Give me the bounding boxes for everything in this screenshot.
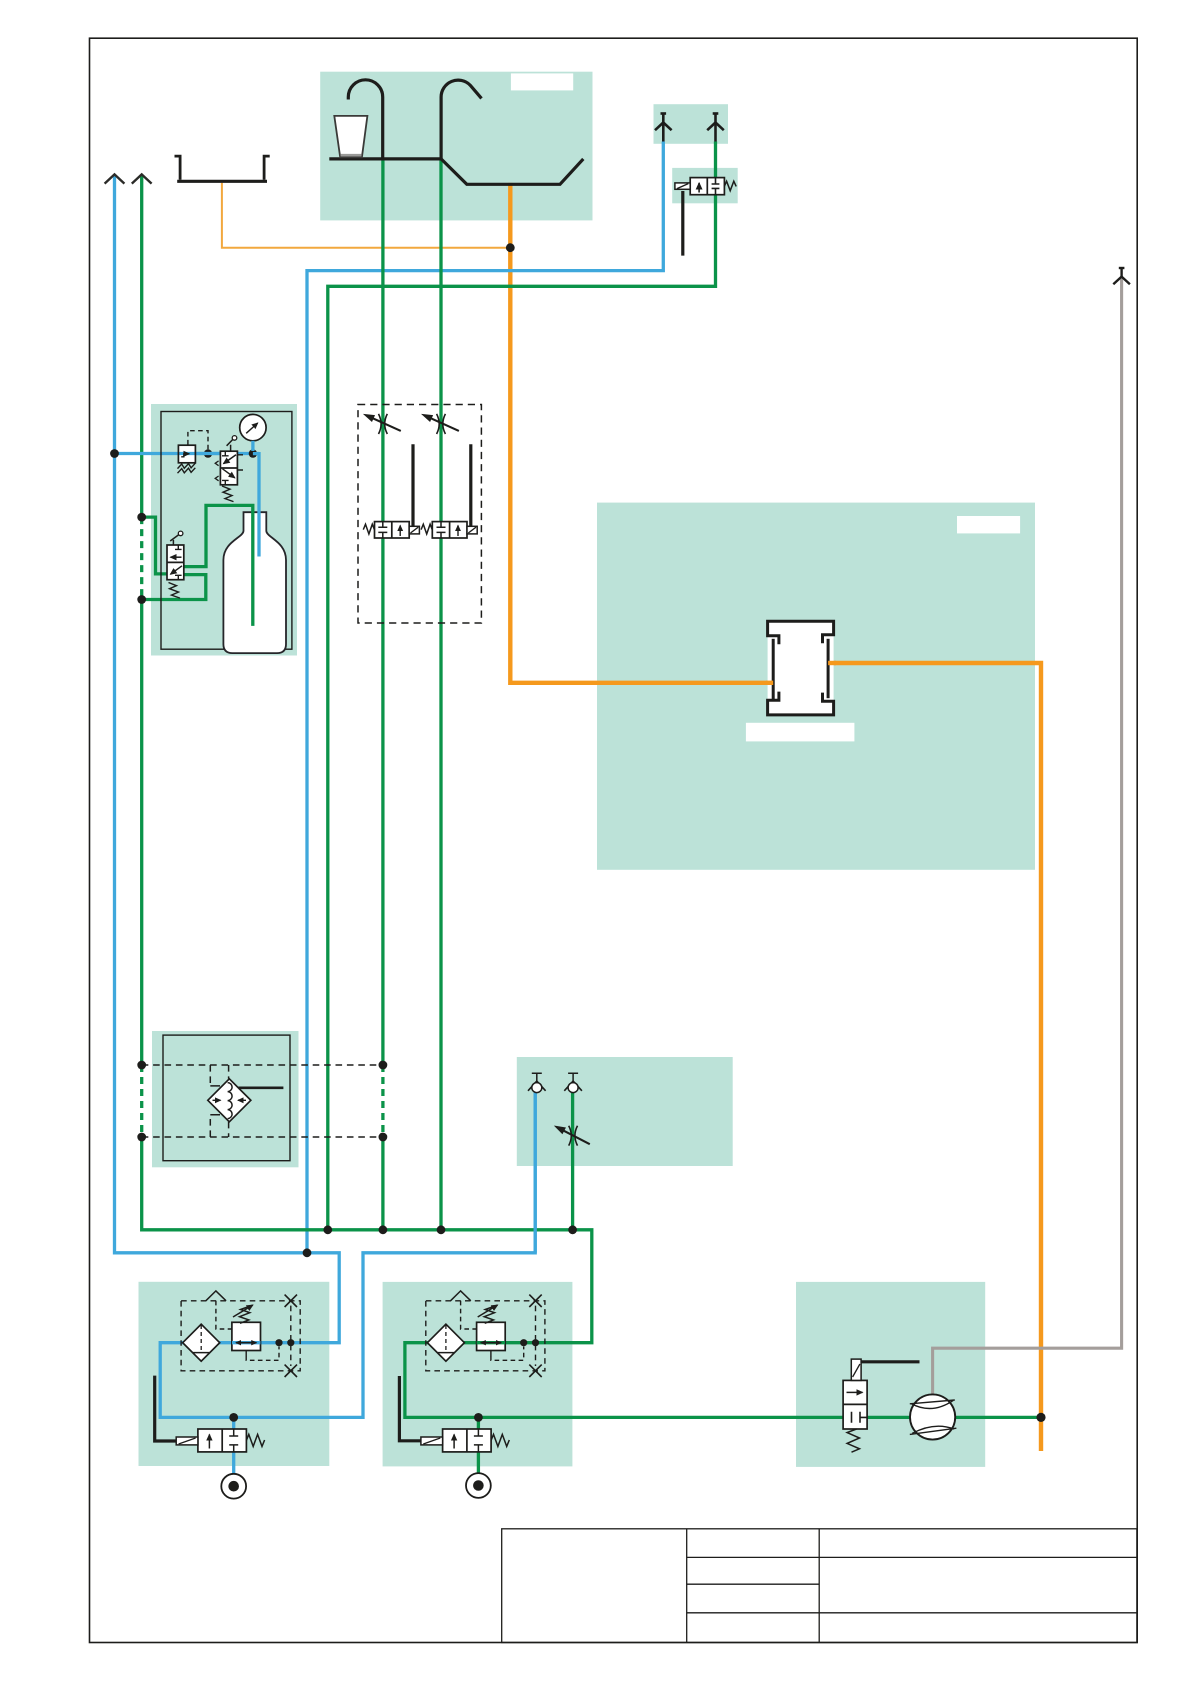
node bus E xyxy=(379,1225,388,1234)
wire blue nozzle 1 drop J xyxy=(534,1092,537,1253)
service unit 1 regulator spring xyxy=(240,1306,252,1324)
node service2 outlet branch xyxy=(474,1413,483,1422)
wire gray from vacuum pump to exhaust E3 xyxy=(933,279,1122,1397)
valve V1 blocked port marks xyxy=(712,178,720,195)
nozzle N2 xyxy=(564,1073,582,1092)
wire green line B middle xyxy=(140,600,143,1066)
node bus D xyxy=(323,1225,332,1234)
service unit 1 filter diamond xyxy=(183,1324,220,1361)
stem valve S1 xyxy=(363,522,419,538)
service unit 1 dashed box xyxy=(181,1301,300,1371)
wire green line E lower xyxy=(381,1137,384,1230)
throttle valve T3 xyxy=(555,1126,590,1146)
pilot line exhaust valve actuator xyxy=(681,191,684,256)
solenoid valve SV1 xyxy=(176,1429,264,1452)
cup base shading xyxy=(341,154,362,157)
air dryer scallops xyxy=(228,1083,233,1119)
gauge stem xyxy=(251,441,254,451)
valve V2 right port stubs xyxy=(237,455,243,470)
pump control valve PV xyxy=(843,1359,867,1452)
label patch cell bottom xyxy=(746,723,855,742)
relief valve R1 spring xyxy=(178,463,196,468)
node bus F xyxy=(437,1225,446,1234)
title block row line 2 (middle column only) xyxy=(687,1583,820,1585)
service unit 2 test X top xyxy=(529,1295,541,1307)
bottle unit inner frame xyxy=(161,412,292,650)
valve PV solenoid xyxy=(851,1359,861,1380)
measuring cell upper flange outline xyxy=(768,621,834,644)
service unit 2 regulator xyxy=(477,1322,506,1350)
valve SV1 spring xyxy=(246,1434,264,1446)
measuring cell body white xyxy=(768,621,834,715)
title block row line 3 xyxy=(687,1612,1137,1614)
throttle valve T1 xyxy=(364,414,400,434)
service unit 1 regulator xyxy=(232,1322,261,1350)
exhaust E2 (green side) xyxy=(707,114,724,142)
node pump outlet on orange line xyxy=(1036,1413,1045,1422)
valve V3 top box arrow and port T xyxy=(175,545,182,549)
valve V2 exhaust chevrons xyxy=(215,461,218,466)
wire green bus and service unit 2 run to pump xyxy=(142,1137,1041,1417)
service unit 2 pilot dashed loop xyxy=(491,1347,524,1361)
dispenser spout 1 xyxy=(348,80,382,159)
valve V1 return spring xyxy=(724,181,736,191)
pilot lead solenoid service 1 xyxy=(155,1376,177,1441)
wire blue supply line A xyxy=(115,176,536,1418)
port coupling C2 xyxy=(466,1473,491,1498)
block measuring cell xyxy=(597,503,1035,870)
block dispenser unit xyxy=(320,72,592,221)
valve PV spring xyxy=(847,1429,859,1452)
node blue riser C join xyxy=(303,1248,312,1257)
block bottle unit xyxy=(151,404,297,656)
wire orange stub into cell left port xyxy=(766,681,773,685)
label patch dispenser xyxy=(511,73,573,90)
wire green bottle valve return to node B2 xyxy=(142,575,206,600)
valve V2 spring xyxy=(222,486,234,502)
throttle valve T2 xyxy=(423,414,459,434)
node bus K xyxy=(568,1225,577,1234)
stem valve S2 xyxy=(421,522,477,538)
node B2 xyxy=(137,595,146,604)
block air dryer xyxy=(152,1031,299,1167)
wire orange stub out of cell right port xyxy=(828,661,836,665)
valve V2 lever xyxy=(227,439,234,451)
valve V1 flow arrow xyxy=(698,183,700,193)
air dryer dashed taps xyxy=(142,1065,383,1137)
node blue feed tap xyxy=(110,449,119,458)
block service unit 2 xyxy=(383,1282,573,1467)
air dryer connectors xyxy=(210,1086,220,1115)
exhaust E1 (blue side) xyxy=(655,114,672,142)
block exhaust valve xyxy=(672,168,738,203)
valve S1 blocked port marks xyxy=(378,522,387,538)
node service1 pilot tap xyxy=(275,1339,282,1346)
solenoid valve SV2 xyxy=(421,1429,509,1452)
wire green branch to service valve 2 port 1 xyxy=(477,1417,480,1473)
wire green bottle feed from node B1 xyxy=(142,517,168,574)
valve PV flow arrow xyxy=(847,1391,863,1393)
service unit 1 test point dashed line xyxy=(290,1306,292,1366)
node bottle pilot junction xyxy=(204,449,212,457)
supply arrow blue xyxy=(105,174,125,183)
valve PV blocked port marks xyxy=(852,1412,868,1423)
relief valve R1 pilot dashed line xyxy=(188,431,208,454)
wire green line B bypass dashed segment 1 xyxy=(140,517,143,599)
exhaust valve V1 body xyxy=(675,178,736,195)
block service unit 1 xyxy=(139,1282,330,1466)
air dryer outlet arrow xyxy=(238,1099,246,1101)
valve SV2 spring xyxy=(491,1434,509,1446)
measuring cell left wall xyxy=(772,639,775,701)
valve S2 flow arrow xyxy=(457,526,459,537)
measuring cell lower flange outline xyxy=(768,692,834,715)
service unit 1 pilot dashed loop xyxy=(246,1347,279,1361)
block nozzles xyxy=(517,1057,733,1166)
label patch cell top-right xyxy=(957,516,1020,533)
service unit 2 test point dashed line xyxy=(535,1306,537,1366)
wire orange from measuring cell outlet down to node P2 xyxy=(830,663,1042,1451)
vacuum pump M1 xyxy=(910,1394,957,1439)
service unit 2 filter diamond xyxy=(427,1324,464,1361)
valve S1 stem actuator xyxy=(409,526,419,534)
service unit 1 test X top xyxy=(285,1295,297,1307)
valve V2 bottom box arrow and port T xyxy=(223,469,235,478)
title block outline xyxy=(502,1529,1137,1643)
valve V2 top box port T and arrow xyxy=(222,451,229,456)
pilot stem valve S2 flow box xyxy=(469,444,472,526)
wire green nozzle 2 drop K xyxy=(571,1092,574,1230)
wire green supply line B upper xyxy=(140,176,143,517)
valve V3 lever xyxy=(170,534,179,545)
port coupling C1 xyxy=(221,1474,246,1499)
wire green from exhaust valve down riser D xyxy=(328,142,716,1230)
air dryer inlet arrow xyxy=(213,1099,221,1101)
tank (open reservoir) xyxy=(175,156,270,181)
valve V3 spring xyxy=(169,583,181,599)
pilot stem valve S1 flow box xyxy=(411,444,414,526)
node service2 test tap xyxy=(532,1339,539,1346)
service unit 2 chevron dashed drop xyxy=(461,1301,477,1329)
pilot lead pump control valve xyxy=(861,1360,919,1363)
valve S1 flow arrow xyxy=(399,526,401,537)
relief valve R1 xyxy=(178,445,221,473)
node dryer top-left xyxy=(137,1061,146,1070)
flow control box dashed border xyxy=(358,405,481,624)
service unit 2 dashed box xyxy=(426,1301,545,1371)
valve S2 blocked port marks xyxy=(437,522,446,538)
node bottle gauge junction xyxy=(249,449,257,457)
wire green line B bypass dashed segment 2 xyxy=(140,1065,143,1137)
node dryer top-right xyxy=(379,1061,388,1070)
service unit 2 test X bottom xyxy=(529,1365,541,1377)
node dryer bottom-left xyxy=(137,1133,146,1142)
supply arrow green xyxy=(132,174,152,183)
wire green line E dashed bypass xyxy=(381,1065,384,1137)
node P1 orange junction xyxy=(506,243,515,252)
air dryer diamond xyxy=(208,1079,251,1122)
node service2 pilot tap xyxy=(520,1339,527,1346)
service unit 2 regulator spring xyxy=(484,1306,496,1324)
air dryer vent line xyxy=(239,1086,284,1089)
measuring cell right wall xyxy=(827,639,830,698)
valve V3 bottom box arrow and port T xyxy=(171,566,183,574)
title block column line 2 xyxy=(818,1529,820,1643)
nozzle N1 xyxy=(528,1073,546,1092)
dispenser counter line xyxy=(329,157,441,160)
bottle green dip tube xyxy=(184,505,253,626)
exhaust E3 (gray line, top right) xyxy=(1113,268,1130,284)
node B1 xyxy=(137,513,146,522)
air dryer inner frame xyxy=(163,1035,290,1161)
dispenser cup xyxy=(334,116,367,157)
valve S2 spring xyxy=(421,524,432,534)
valve V1 pilot solenoid xyxy=(675,183,690,189)
service unit 1 chevron dashed drop xyxy=(216,1301,232,1329)
manual valve V3 (bottle lower) xyxy=(167,531,184,598)
pump vane top xyxy=(910,1400,955,1404)
service unit 1 vent chevron xyxy=(206,1291,226,1301)
title block row line 1 xyxy=(687,1556,1137,1558)
pilot lead solenoid service 2 xyxy=(399,1376,421,1441)
wire blue bottle-unit feed row xyxy=(115,452,260,455)
pump vane bottom xyxy=(910,1428,957,1434)
manual valve V2 (bottle top) xyxy=(215,436,243,502)
node service1 test tap xyxy=(287,1339,294,1346)
valve S2 stem actuator xyxy=(467,526,477,534)
wire blue from exhaust E1 down riser C xyxy=(307,142,663,1253)
dispenser spout 2 xyxy=(441,80,481,159)
wire blue branch to service valve port 1 xyxy=(232,1417,235,1474)
pressure gauge G1 xyxy=(240,414,266,451)
wire orange main from dispenser to measuring cell inlet xyxy=(510,183,772,683)
valve S1 spring xyxy=(363,524,374,534)
bottle blue dip tube xyxy=(253,454,259,557)
dispenser funnel tray xyxy=(441,159,583,184)
node dryer bottom-right xyxy=(379,1133,388,1142)
bottle vessel xyxy=(223,512,286,653)
valve SV1 solenoid xyxy=(176,1437,198,1445)
block exhaust pair xyxy=(654,104,729,144)
node service1 outlet branch xyxy=(229,1413,238,1422)
service unit 1 test X bottom xyxy=(285,1365,297,1377)
block vacuum pump xyxy=(796,1282,985,1467)
wire orange thin from tank to node P1 xyxy=(222,183,510,248)
service unit 2 vent chevron xyxy=(451,1291,471,1301)
valve SV2 solenoid xyxy=(421,1437,443,1445)
wire green dispenser line F xyxy=(439,159,442,1230)
title block column line 1 xyxy=(686,1529,688,1643)
wire green dispenser line E upper xyxy=(381,159,384,1065)
